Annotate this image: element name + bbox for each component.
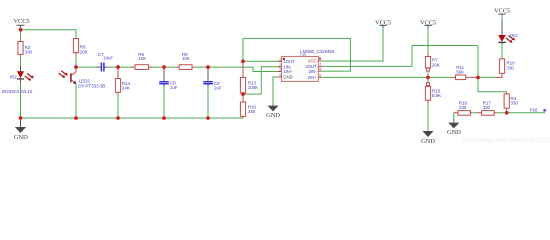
svg-text:6: 6 bbox=[319, 67, 321, 71]
node P (R4 bottom junction) bbox=[505, 111, 509, 115]
svg-text:20K: 20K bbox=[432, 63, 441, 68]
node D (R14 rail junction) bbox=[116, 116, 120, 120]
svg-text:1IN+: 1IN+ bbox=[283, 69, 292, 74]
resistor R13 bbox=[240, 61, 259, 94]
node N (R7/R15 divider junction) bbox=[426, 76, 430, 80]
wire pin7 to output link bbox=[322, 46, 478, 67]
power VCC5 #1 bbox=[13, 18, 30, 30]
wire pin4 to ground bbox=[273, 77, 282, 104]
svg-text:DY-PT333-3B: DY-PT333-3B bbox=[78, 83, 105, 88]
junction dots overlay bbox=[19, 28, 509, 120]
wire R17 to node P bbox=[497, 112, 507, 114]
svg-text:330: 330 bbox=[483, 105, 491, 110]
svg-text:D61: D61 bbox=[510, 33, 519, 38]
wire IR2 to bottom rail bbox=[20, 83, 22, 118]
wire R9 to node J bbox=[195, 66, 208, 68]
svg-text:20K: 20K bbox=[80, 50, 89, 55]
resistor R2 bbox=[18, 38, 33, 57]
wire node I to R9 bbox=[164, 66, 176, 68]
wire pin8 to VCC5#2 bbox=[322, 28, 383, 61]
svg-text:https://blog.csdn.net/x1131230: https://blog.csdn.net/x1131230123 bbox=[463, 137, 550, 144]
node E (C8 rail junction) bbox=[162, 116, 166, 120]
wire R18 to R17 bbox=[472, 112, 477, 114]
resistor R18 bbox=[454, 101, 472, 116]
op-amp U5 LM358 bbox=[278, 49, 335, 82]
svg-text:5: 5 bbox=[319, 74, 321, 78]
node J (C9 top junction) bbox=[206, 65, 210, 69]
wire C7 to node H bbox=[108, 66, 119, 68]
led D61 bbox=[498, 21, 518, 44]
svg-text:100K: 100K bbox=[248, 85, 259, 90]
capacitor C7 bbox=[97, 52, 114, 71]
power VCC5 #2 bbox=[375, 20, 392, 28]
net flag pin P16 bbox=[543, 109, 546, 112]
power VCC5 #4 bbox=[494, 8, 511, 15]
resistor R9 bbox=[176, 52, 196, 69]
resistor R15 bbox=[425, 77, 442, 100]
wire R14 to rail bbox=[117, 95, 119, 118]
wire signal row to pin3 jog bbox=[208, 67, 282, 71]
wire R8 to node I bbox=[152, 66, 164, 68]
svg-text:1OUT: 1OUT bbox=[283, 59, 295, 64]
resistor R14 bbox=[115, 67, 130, 95]
wire bottom ground rail bbox=[21, 117, 244, 118]
wire VCC5#3 to R7 bbox=[427, 28, 429, 52]
svg-text:2IN+: 2IN+ bbox=[308, 75, 317, 80]
svg-text:10K: 10K bbox=[138, 56, 147, 61]
wire pin5 row bbox=[322, 76, 452, 78]
svg-text:2: 2 bbox=[279, 63, 281, 67]
ground GND4 bbox=[447, 113, 461, 136]
svg-text:IR2: IR2 bbox=[10, 75, 17, 80]
LED IR2 bbox=[2, 66, 34, 94]
svg-text:1: 1 bbox=[279, 57, 281, 61]
resistor R8 bbox=[132, 52, 153, 69]
svg-text:5.8K: 5.8K bbox=[432, 93, 442, 98]
node A (VCC5 left junction) bbox=[19, 28, 23, 32]
svg-text:1uF: 1uF bbox=[170, 85, 178, 90]
resistor R7 bbox=[425, 52, 440, 71]
resistor R10 bbox=[495, 59, 515, 78]
wire node P to P16 bbox=[507, 112, 545, 114]
svg-text:330: 330 bbox=[510, 101, 518, 106]
resistor R11 bbox=[452, 65, 478, 80]
svg-text:GND: GND bbox=[447, 129, 461, 136]
wire C8 to rail bbox=[163, 87, 165, 118]
svg-text:7: 7 bbox=[319, 63, 321, 67]
svg-text:8: 8 bbox=[319, 57, 321, 61]
wire emitter to rail bbox=[75, 84, 77, 118]
ground GND2 (IC) bbox=[266, 104, 280, 119]
wire node L to pin 2 riser bbox=[243, 67, 282, 94]
ground GND1 bbox=[14, 120, 28, 141]
node F (C9 rail junction) bbox=[206, 116, 210, 120]
svg-text:VCC: VCC bbox=[308, 59, 317, 64]
node G (phototransistor collector junction) bbox=[74, 65, 78, 69]
node I (C8 top junction) bbox=[162, 65, 166, 69]
svg-text:1uF: 1uF bbox=[214, 86, 222, 91]
svg-text:3: 3 bbox=[279, 68, 281, 72]
resistor R16 bbox=[240, 94, 256, 117]
wire D6 to R10 bbox=[501, 44, 503, 58]
svg-text:GND: GND bbox=[283, 75, 292, 80]
node K (R13 top junction) bbox=[241, 60, 245, 64]
wire VCC5#4 to D6 bbox=[501, 15, 503, 21]
wire node K to pin 1 bbox=[243, 60, 282, 62]
svg-text:2IN-: 2IN- bbox=[309, 69, 317, 74]
svg-text:GND: GND bbox=[421, 138, 435, 145]
svg-text:GND: GND bbox=[14, 134, 28, 141]
svg-text:4: 4 bbox=[279, 73, 281, 77]
svg-text:330: 330 bbox=[459, 105, 467, 110]
wire node H to R8 bbox=[118, 66, 132, 68]
svg-text:56K: 56K bbox=[456, 69, 465, 74]
phototransistor LED2 bbox=[59, 67, 106, 88]
wire R15 to ground bbox=[427, 100, 429, 104]
svg-text:10nF: 10nF bbox=[103, 56, 113, 61]
wire C9 to rail bbox=[207, 87, 209, 118]
power VCC5 #3 bbox=[420, 20, 437, 28]
wire link riser to node M bbox=[477, 46, 479, 78]
svg-text:P16: P16 bbox=[530, 107, 538, 112]
svg-text:330: 330 bbox=[248, 109, 256, 114]
resistor R17 bbox=[477, 101, 497, 116]
wire R6 to collector node bbox=[75, 58, 77, 68]
svg-text:10K: 10K bbox=[182, 56, 191, 61]
wire mid row from collector to C7 bbox=[76, 66, 97, 68]
node H (R14 top junction) bbox=[116, 65, 120, 69]
svg-text:GND: GND bbox=[266, 112, 280, 119]
wire feedback top link (pin6 net) bbox=[243, 38, 350, 71]
wire VCC to R2 bbox=[20, 30, 22, 39]
svg-text:24K: 24K bbox=[122, 86, 131, 91]
wire R10 to node M bbox=[478, 76, 495, 78]
resistor R6 bbox=[73, 39, 88, 58]
svg-text:VCC5: VCC5 bbox=[13, 18, 30, 25]
svg-text:330: 330 bbox=[506, 65, 514, 70]
resistor R4 bbox=[504, 92, 518, 113]
wire R2 to IR2 bbox=[20, 57, 22, 66]
capacitor C8 bbox=[159, 67, 178, 90]
capacitor C9 bbox=[203, 67, 222, 91]
node B (bottom-left junction) bbox=[19, 116, 23, 120]
node C (emitter rail junction) bbox=[74, 116, 78, 120]
wire R7 to node N bbox=[427, 71, 429, 77]
node L (R13/R16 junction) bbox=[241, 92, 245, 96]
wire top-left rail to R6 bbox=[21, 30, 77, 39]
ground GND3 bbox=[421, 131, 435, 145]
wire node M to R4 bbox=[478, 77, 507, 91]
svg-text:330: 330 bbox=[25, 50, 33, 55]
svg-text:IR333C/H0/L10: IR333C/H0/L10 bbox=[2, 89, 33, 94]
node M (R11/R10 junction) bbox=[476, 76, 480, 80]
